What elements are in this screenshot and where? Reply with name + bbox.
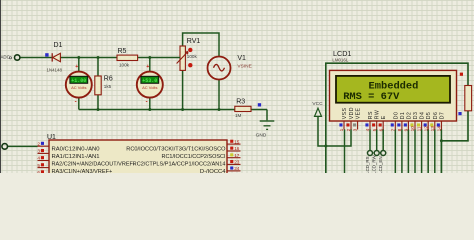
svg-text:R6: R6 xyxy=(104,76,113,83)
svg-text:AC Volts: AC Volts xyxy=(142,85,157,90)
svg-text:1k5: 1k5 xyxy=(104,84,112,89)
svg-text:R5: R5 xyxy=(118,48,127,55)
svg-text:D5: D5 xyxy=(426,112,432,119)
svg-text:VDD: VDD xyxy=(349,107,355,119)
svg-text:8: 8 xyxy=(397,128,403,131)
svg-text:4: 4 xyxy=(37,156,40,161)
svg-text:10: 10 xyxy=(410,126,416,132)
svg-text:6: 6 xyxy=(378,128,384,131)
svg-text:RC0/IOCC0/T3CKI/T3G/T1CKI/SOSC: RC0/IOCC0/T3CKI/T3G/T1CKI/SOSCO xyxy=(126,146,225,152)
svg-text:11: 11 xyxy=(417,126,423,131)
svg-text:LCD_EN: LCD_EN xyxy=(378,156,383,173)
svg-text:24: 24 xyxy=(234,166,240,171)
svg-text:RC1/IOCC1/CCP2/SOSCI: RC1/IOCC1/CCP2/SOSCI xyxy=(162,154,226,160)
svg-text:+53.0: +53.0 xyxy=(142,78,157,84)
svg-text:3: 3 xyxy=(37,149,40,154)
svg-text:VSINE: VSINE xyxy=(237,63,251,69)
svg-text:VCC: VCC xyxy=(312,101,323,107)
svg-text:4: 4 xyxy=(365,128,371,131)
svg-text:3: 3 xyxy=(353,128,359,131)
svg-text:14: 14 xyxy=(437,126,443,132)
svg-text:6: 6 xyxy=(37,170,40,173)
svg-text:R3: R3 xyxy=(236,98,245,105)
svg-text:9: 9 xyxy=(404,128,410,131)
svg-text:LCD_RS: LCD_RS xyxy=(365,156,370,173)
svg-text:23: 23 xyxy=(234,160,240,165)
svg-text:D2: D2 xyxy=(406,112,412,119)
svg-text:D0: D0 xyxy=(393,112,399,119)
svg-text:-: - xyxy=(146,99,148,105)
svg-text:D-/IOCC4: D-/IOCC4 xyxy=(200,169,226,173)
svg-text:D1: D1 xyxy=(54,42,63,49)
svg-text:RW: RW xyxy=(375,110,381,119)
svg-text:5: 5 xyxy=(37,163,40,168)
svg-text:D1: D1 xyxy=(400,112,406,119)
svg-text:LM016L: LM016L xyxy=(332,58,348,63)
svg-text:1: 1 xyxy=(339,128,345,131)
svg-text:17: 17 xyxy=(234,153,240,158)
svg-text:100k: 100k xyxy=(119,63,130,68)
svg-text:RS: RS xyxy=(368,111,374,119)
svg-text:2: 2 xyxy=(37,141,40,146)
svg-text:5: 5 xyxy=(372,128,378,131)
svg-text:RA0/C12IN0-/AN0: RA0/C12IN0-/AN0 xyxy=(52,146,100,152)
svg-text:RA2/C2IN+/AN2/DACOUT/VREF-: RA2/C2IN+/AN2/DACOUT/VREF- xyxy=(52,161,135,167)
svg-text:D3: D3 xyxy=(413,112,419,119)
svg-text:D6: D6 xyxy=(433,112,439,119)
svg-text:ADC: ADC xyxy=(1,55,10,60)
svg-text:+1.00: +1.00 xyxy=(71,78,86,84)
svg-text:D7: D7 xyxy=(439,112,445,119)
svg-text:2: 2 xyxy=(346,128,352,131)
svg-text:13: 13 xyxy=(430,126,436,132)
svg-text:VSS: VSS xyxy=(342,107,348,119)
svg-text:7: 7 xyxy=(390,128,396,131)
svg-text:E: E xyxy=(381,115,387,119)
svg-text:1N4148: 1N4148 xyxy=(47,67,63,72)
svg-text:V1: V1 xyxy=(237,55,246,62)
svg-text:LCD_RW: LCD_RW xyxy=(372,154,377,173)
svg-text:-: - xyxy=(75,99,77,105)
svg-text:RMS = 67V: RMS = 67V xyxy=(343,91,400,103)
svg-text:RV1: RV1 xyxy=(187,38,201,45)
svg-text:16: 16 xyxy=(234,146,240,151)
svg-text:RA3/C1IN+/AN3/VREF+: RA3/C1IN+/AN3/VREF+ xyxy=(52,169,113,173)
svg-text:+: + xyxy=(75,64,78,70)
svg-text:AC Volts: AC Volts xyxy=(71,85,86,90)
svg-text:RA1/C12IN1-/AN1: RA1/C12IN1-/AN1 xyxy=(52,154,100,160)
svg-text:D4: D4 xyxy=(420,112,426,119)
svg-text:15: 15 xyxy=(234,139,240,144)
svg-text:RC2/CTPLS/P1A/CCP1/IOCC2/AN14: RC2/CTPLS/P1A/CCP1/IOCC2/AN14 xyxy=(133,161,226,167)
svg-text:GND: GND xyxy=(256,132,267,138)
svg-text:1M: 1M xyxy=(235,113,242,118)
svg-text:VEE: VEE xyxy=(356,107,362,119)
svg-text:+: + xyxy=(146,64,149,70)
svg-text:100k: 100k xyxy=(187,54,198,59)
svg-text:12: 12 xyxy=(423,126,429,132)
